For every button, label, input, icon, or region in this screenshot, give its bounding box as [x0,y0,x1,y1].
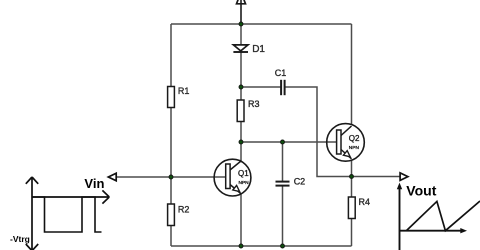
svg-text:D1: D1 [252,44,265,55]
svg-text:Vin: Vin [84,176,104,191]
wire Vout tap [352,176,401,178]
svg-text:C1: C1 [275,68,287,78]
Vout graph vertical axis [397,183,402,250]
Vout sawtooth waveform [406,201,480,231]
svg-text:C2: C2 [294,177,306,187]
svg-text:R2: R2 [178,205,190,215]
resistor R2 [168,204,175,226]
wire Vin input [116,176,226,178]
wire C2 lower [282,186,284,246]
transistor Q2 [327,124,365,162]
Vout output arrowhead [400,173,408,181]
svg-text:Q2: Q2 [349,134,360,143]
wire C1 right to corner [285,87,352,177]
wire C2 upper [282,142,284,181]
Vin pulse waveform [32,197,102,232]
Vin graph horizontal axis [32,190,109,203]
power supply arrow [240,0,242,24]
junction node bottom C2 [281,244,285,248]
junction node emitter/Vout [350,175,354,179]
svg-text:Q1: Q1 [238,169,249,178]
capacitor C2 [276,182,290,186]
Vin graph vertical axis [26,177,38,250]
transistor Q1 [214,159,251,196]
svg-text:NPN: NPN [239,180,250,186]
wire middle branch upper [240,24,242,161]
svg-text:NPN: NPN [349,145,360,151]
wire C1 left [241,86,281,88]
junction node Q1 base [169,175,173,179]
svg-text:R1: R1 [178,86,190,96]
resistor R3 [237,100,244,122]
junction node bottom Q1 [239,244,243,248]
resistor R4 [348,197,355,219]
wire top rail [171,23,352,25]
capacitor C1 [281,80,285,95]
wire middle branch lower [240,194,242,246]
junction node D1/R3/C1 [239,85,243,89]
wire left branch [170,24,172,246]
wire right branch upper [351,24,353,125]
Vin input arrowhead [108,173,116,181]
resistor R1 [168,87,175,108]
junction node top [239,22,243,26]
Vout graph horizontal axis [400,228,468,233]
svg-text:-Vtrg: -Vtrg [10,234,30,244]
diode D1 [233,45,248,52]
wire bottom rail [171,245,352,247]
wire Q2 base [241,141,337,143]
svg-text:R3: R3 [248,99,260,109]
junction node C2 top [281,140,285,144]
svg-text:Vout: Vout [406,183,436,199]
svg-text:R4: R4 [359,197,371,207]
wire right branch lower [351,160,353,246]
junction node R3 bottom [239,140,243,144]
